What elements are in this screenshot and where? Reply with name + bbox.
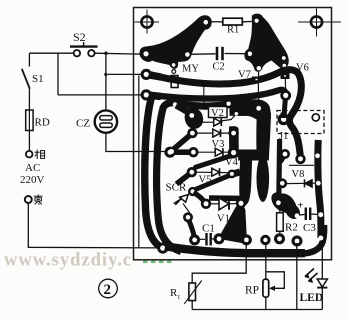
pads on central mass <box>256 106 261 111</box>
switch S1 <box>22 53 30 110</box>
wire S2 to board pad <box>95 53 144 54</box>
svg-text:R: R <box>170 287 178 299</box>
mounting hole top-right <box>298 9 341 37</box>
pad band1 start <box>141 69 152 80</box>
wire neutral to board <box>28 203 160 248</box>
diode row3 <box>197 148 229 156</box>
terminal neutral <box>25 196 32 203</box>
mass finger oval <box>257 155 270 202</box>
R bottom wire <box>191 301 193 310</box>
node junction x58 <box>57 53 59 95</box>
pads top-left pour <box>204 20 209 25</box>
central right mass head <box>229 99 270 119</box>
svg-text:R1: R1 <box>227 25 239 36</box>
svg-text:AC: AC <box>25 162 40 174</box>
thermistor R <box>189 283 196 301</box>
diode V1 outline <box>209 198 238 210</box>
switch S2 <box>70 42 98 56</box>
RP bottom wire <box>265 297 267 309</box>
LED wire top <box>321 241 323 279</box>
bottom rail <box>165 246 305 253</box>
svg-text:CZ: CZ <box>76 118 90 130</box>
svg-text:RD: RD <box>35 117 50 129</box>
svg-text:V8: V8 <box>292 169 305 180</box>
resistor R1 <box>208 18 254 25</box>
pad cz entry <box>169 149 174 154</box>
svg-text:V6: V6 <box>296 63 309 74</box>
wire board mid <box>296 243 298 310</box>
pad band2 end <box>280 90 291 101</box>
SCR link trace <box>194 193 207 204</box>
pads bottom right row <box>274 233 285 244</box>
dumbbell C <box>177 172 192 184</box>
svg-text:MY: MY <box>182 64 199 75</box>
copper: top-right pour <box>244 14 288 72</box>
capacitor C2 <box>190 47 248 60</box>
thyristor SCR <box>174 192 193 213</box>
terminal phase <box>26 151 33 158</box>
fan blob under V1 <box>220 206 246 244</box>
bottom rail wire <box>192 309 322 311</box>
wire pad to R top <box>192 242 246 283</box>
diagonal link row3 <box>196 155 235 167</box>
relay J1 outline <box>277 111 324 134</box>
svg-text:220V: 220V <box>20 174 45 186</box>
central right mass left bar <box>229 126 239 157</box>
link V6 pad to J1 pad <box>284 98 285 116</box>
pad V8 left <box>277 178 287 188</box>
left arc outer + top strip <box>157 103 253 252</box>
svg-text:C3: C3 <box>303 222 316 234</box>
mounting hole top-left <box>135 10 160 34</box>
node junction x108 y74 <box>104 73 107 76</box>
vertical trace J1 column <box>281 113 287 119</box>
trace band1 <box>149 70 301 155</box>
svg-text:V2: V2 <box>211 108 224 119</box>
pad band1 end <box>295 154 305 164</box>
dumbbell A <box>176 106 192 115</box>
left arc inner <box>138 76 140 248</box>
svg-text:C1: C1 <box>202 223 215 235</box>
pads on top strip <box>173 102 177 106</box>
central right mass right column <box>256 113 271 159</box>
varistor MY <box>172 70 176 74</box>
svg-text:C2: C2 <box>213 61 225 72</box>
LED rays <box>305 269 318 282</box>
blob left ladder <box>185 108 204 129</box>
right column trace <box>318 140 321 238</box>
dumbbell B <box>170 133 192 152</box>
svg-text:V3: V3 <box>212 139 225 150</box>
label V2 box <box>209 107 228 118</box>
svg-text:S2: S2 <box>73 30 86 44</box>
mass lobes left edge <box>228 128 238 138</box>
svg-text:LED: LED <box>300 292 324 304</box>
figure number <box>99 279 118 298</box>
svg-text:V1: V1 <box>217 214 230 225</box>
central right mass bottom wedge <box>238 150 269 161</box>
wire to board pad y95 <box>58 94 144 96</box>
trace band2 <box>149 90 286 99</box>
pad A <box>280 149 290 159</box>
svg-text:R2: R2 <box>285 222 298 234</box>
fuse RD <box>26 110 33 151</box>
component outline line <box>289 164 314 166</box>
wire to board pad y74 <box>108 73 144 75</box>
diode V3 row <box>197 129 232 137</box>
pads top-right pour <box>255 19 259 23</box>
svg-text:www.sydzdiy.c: www.sydzdiy.c <box>4 251 132 271</box>
diode row4 <box>196 168 228 176</box>
resistor R2 <box>277 206 284 237</box>
diode V2 <box>196 116 235 127</box>
bottom rail right hook <box>303 225 324 254</box>
potentiometer RP <box>263 279 269 297</box>
pad band2 start <box>141 89 152 100</box>
mass finger left <box>239 156 252 205</box>
svg-text:SCR: SCR <box>166 182 187 194</box>
RP wiper loop <box>266 272 285 289</box>
wire junction down <box>105 53 107 110</box>
blob R2 top <box>271 192 300 219</box>
LED diode <box>317 279 327 310</box>
watermark green dashes <box>143 261 172 264</box>
PCB board outline <box>134 8 332 260</box>
svg-text:+: + <box>298 201 304 212</box>
svg-text:t: t <box>178 293 180 301</box>
pad217 link <box>189 220 195 239</box>
socket CZ <box>95 110 117 132</box>
svg-text:S1: S1 <box>32 73 44 85</box>
wire S1 top to S2 <box>29 52 73 54</box>
V2 box lead up <box>203 84 205 107</box>
pad neutral entry <box>157 243 168 254</box>
node junction x108 <box>104 52 107 55</box>
band above V1 strip <box>209 195 247 201</box>
svg-text:RP: RP <box>245 285 259 297</box>
free hole <box>312 114 319 121</box>
wire CZ to board <box>106 133 168 152</box>
wire RP top <box>265 242 267 279</box>
capacitor C3 <box>299 208 319 221</box>
diagonal link row4 <box>194 175 231 190</box>
J1 pad <box>278 113 290 125</box>
svg-text:V7: V7 <box>238 70 251 81</box>
svg-text:2: 2 <box>104 282 112 298</box>
